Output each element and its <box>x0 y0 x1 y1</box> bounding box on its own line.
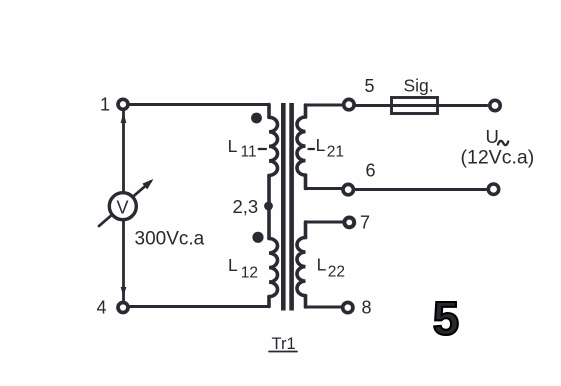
terminal 5 <box>344 99 354 109</box>
svg-text:7: 7 <box>360 213 370 233</box>
wire center tap vertical (L11 to L12) <box>267 176 271 239</box>
polarity dot L12 <box>252 232 263 243</box>
label U~ <box>486 126 509 147</box>
svg-text:1: 1 <box>100 95 110 115</box>
label L21 <box>316 135 344 161</box>
transformer core bar 1 <box>281 103 286 311</box>
voltmeter V <box>109 193 136 220</box>
tick from winding to label L21 <box>309 148 315 150</box>
svg-text:4: 4 <box>97 298 107 318</box>
label L12 <box>228 255 258 282</box>
svg-text:8: 8 <box>362 298 372 318</box>
tick from label L11 to winding <box>259 148 266 150</box>
wire L21 top to terminal 5 <box>306 104 343 107</box>
label L22 <box>317 255 345 281</box>
terminal 6 <box>343 184 353 194</box>
svg-text:300Vc.a: 300Vc.a <box>135 229 205 250</box>
terminal output top-right <box>490 100 500 110</box>
svg-text:21: 21 <box>327 144 344 161</box>
terminal 7 <box>344 218 354 228</box>
polarity dot L11 <box>251 113 262 124</box>
svg-text:L: L <box>228 255 238 275</box>
wire L21 bottom to terminal 6 <box>306 187 343 190</box>
terminal 1 <box>118 99 128 109</box>
arrowhead down on left wire <box>121 287 127 297</box>
wire terminal 5 to fuse and through to right terminal <box>356 104 487 107</box>
svg-text:5: 5 <box>365 76 375 96</box>
wire terminal 6 to bottom-right terminal <box>356 188 487 191</box>
winding L12 <box>269 239 278 297</box>
svg-text:L: L <box>316 135 326 155</box>
fuse Sig. <box>392 98 438 114</box>
svg-text:L: L <box>228 136 238 156</box>
voltmeter needle <box>99 182 151 227</box>
svg-text:2,3: 2,3 <box>233 196 259 217</box>
svg-text:U: U <box>486 126 499 147</box>
transformer core bar 2 <box>289 103 294 311</box>
terminal output bottom-right <box>488 184 498 194</box>
junction node 2,3 <box>264 202 273 211</box>
svg-text:11: 11 <box>241 144 257 161</box>
wire left vertical terminal 1 to terminal 4 <box>122 111 125 302</box>
wire top-left horizontal from terminal 1 to L11 <box>130 103 269 106</box>
terminal 8 <box>343 303 353 313</box>
label L11 <box>228 136 257 161</box>
winding L21 <box>304 105 308 189</box>
svg-text:6: 6 <box>366 161 376 181</box>
wire bottom-left horizontal terminal 4 to L12 <box>130 305 269 308</box>
arrowhead up on left wire <box>121 113 127 124</box>
svg-text:(12Vc.a): (12Vc.a) <box>461 147 535 169</box>
winding L22 <box>304 222 308 307</box>
svg-text:Tr1: Tr1 <box>272 335 296 353</box>
svg-text:12: 12 <box>241 265 258 282</box>
winding L11 <box>267 105 271 118</box>
wire L22 top to terminal 7 <box>306 221 343 224</box>
svg-text:5: 5 <box>433 293 459 346</box>
svg-text:22: 22 <box>328 264 345 281</box>
svg-text:V: V <box>117 198 129 218</box>
wire L22 bottom to terminal 8 <box>306 306 343 309</box>
terminal 4 <box>118 303 128 313</box>
svg-text:L: L <box>317 255 327 275</box>
svg-text:Sig.: Sig. <box>404 76 434 96</box>
